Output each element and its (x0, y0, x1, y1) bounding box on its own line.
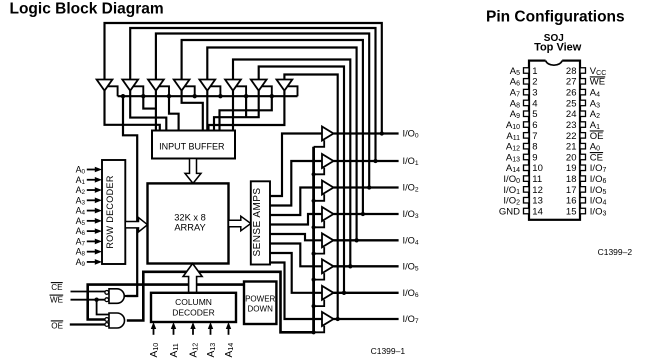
svg-text:C1399–1: C1399–1 (371, 346, 406, 356)
svg-text:24: 24 (566, 109, 577, 120)
svg-text:3: 3 (532, 88, 537, 99)
svg-text:ROW DECODER: ROW DECODER (105, 175, 115, 248)
svg-text:27: 27 (566, 77, 577, 88)
svg-text:INPUT BUFFER: INPUT BUFFER (159, 142, 225, 152)
svg-text:DECODER: DECODER (172, 308, 215, 318)
svg-text:Top View: Top View (534, 42, 582, 54)
svg-text:2: 2 (532, 77, 537, 88)
svg-text:17: 17 (566, 185, 577, 196)
svg-text:21: 21 (566, 142, 577, 153)
svg-text:14: 14 (532, 206, 543, 217)
svg-text:18: 18 (566, 174, 577, 185)
svg-text:13: 13 (532, 196, 543, 207)
svg-text:32K x 8: 32K x 8 (174, 213, 206, 223)
svg-text:28: 28 (566, 66, 577, 77)
svg-text:WE: WE (590, 77, 605, 88)
svg-text:23: 23 (566, 120, 577, 131)
svg-text:Logic Block Diagram: Logic Block Diagram (10, 1, 164, 18)
svg-text:8: 8 (532, 142, 537, 153)
svg-text:SENSE AMPS: SENSE AMPS (252, 188, 263, 257)
svg-text:10: 10 (532, 163, 543, 174)
svg-text:7: 7 (532, 131, 537, 142)
svg-text:WE: WE (50, 296, 64, 305)
svg-text:6: 6 (532, 120, 537, 131)
svg-text:Pin Configurations: Pin Configurations (486, 9, 625, 26)
svg-text:22: 22 (566, 131, 577, 142)
svg-text:5: 5 (532, 109, 537, 120)
svg-text:ARRAY: ARRAY (174, 223, 205, 233)
svg-text:CE: CE (51, 283, 63, 292)
svg-text:A14: A14 (224, 343, 235, 358)
svg-text:15: 15 (566, 206, 577, 217)
svg-text:A10: A10 (149, 343, 160, 358)
svg-text:25: 25 (566, 98, 577, 109)
svg-text:4: 4 (532, 98, 537, 109)
svg-text:16: 16 (566, 196, 577, 207)
svg-text:26: 26 (566, 88, 577, 99)
svg-text:9: 9 (532, 152, 537, 163)
svg-text:20: 20 (566, 152, 577, 163)
svg-text:CE: CE (590, 152, 603, 163)
svg-text:A13: A13 (206, 343, 217, 358)
svg-text:OE: OE (590, 131, 604, 142)
svg-text:OE: OE (51, 321, 63, 330)
svg-text:A11: A11 (169, 343, 180, 357)
svg-text:COLUMN: COLUMN (175, 297, 212, 307)
svg-text:12: 12 (532, 185, 543, 196)
svg-text:C1399–2: C1399–2 (598, 247, 633, 257)
svg-text:1: 1 (532, 66, 537, 77)
svg-text:POWER: POWER (245, 295, 275, 304)
svg-text:11: 11 (532, 174, 542, 185)
svg-text:GND: GND (499, 206, 520, 217)
svg-text:DOWN: DOWN (248, 305, 274, 314)
svg-text:19: 19 (566, 163, 577, 174)
svg-text:A12: A12 (189, 343, 200, 358)
